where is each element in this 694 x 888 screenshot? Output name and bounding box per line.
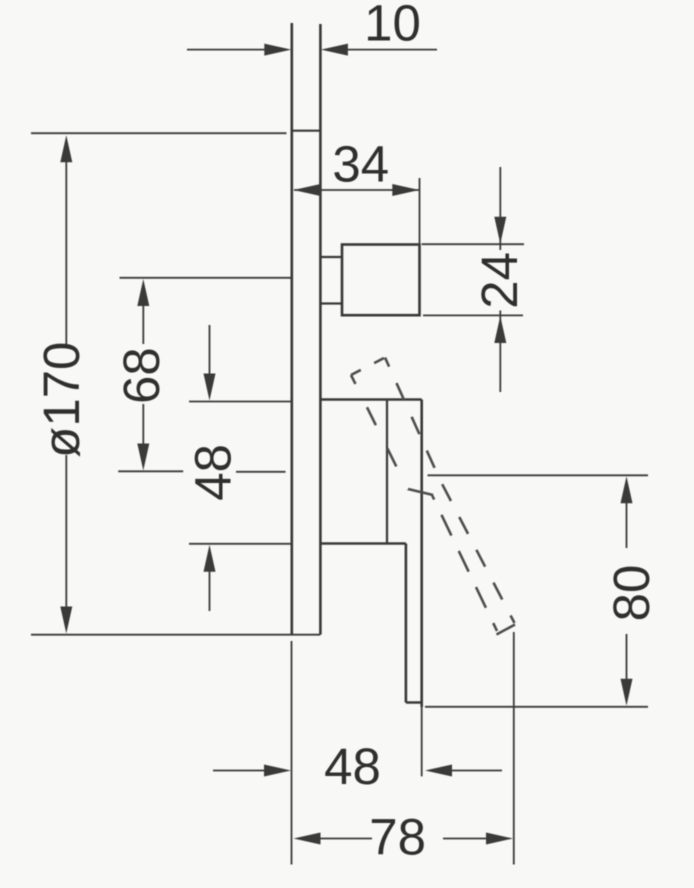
svg-text:34: 34 [332,136,389,193]
svg-text:68: 68 [113,347,170,404]
svg-text:24: 24 [471,252,528,309]
svg-text:48: 48 [324,738,381,795]
svg-text:78: 78 [369,809,426,866]
svg-text:80: 80 [603,565,660,622]
svg-text:48: 48 [184,444,241,501]
svg-text:10: 10 [364,0,421,52]
svg-text:ø170: ø170 [33,342,90,458]
